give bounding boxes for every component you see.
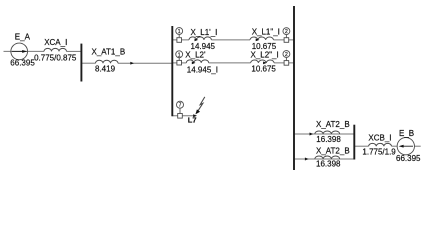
svg-text:2: 2 bbox=[285, 52, 288, 58]
svg-text:14.945_I: 14.945_I bbox=[187, 66, 218, 75]
svg-text:X_L2': X_L2' bbox=[185, 51, 206, 60]
svg-text:1: 1 bbox=[178, 29, 181, 35]
svg-text:1.775/1.9: 1.775/1.9 bbox=[362, 148, 396, 157]
svg-text:E_B: E_B bbox=[399, 129, 414, 138]
svg-text:E_A: E_A bbox=[15, 32, 31, 41]
svg-text:L7: L7 bbox=[188, 115, 197, 124]
svg-text:1: 1 bbox=[178, 52, 181, 58]
svg-text:16.398: 16.398 bbox=[316, 159, 341, 168]
svg-text:X_L1"_I: X_L1"_I bbox=[252, 27, 280, 36]
svg-text:X_L2"_I: X_L2"_I bbox=[251, 51, 279, 60]
svg-text:14.945: 14.945 bbox=[191, 42, 216, 51]
svg-text:X_AT2_B: X_AT2_B bbox=[316, 146, 350, 155]
svg-text:16.398: 16.398 bbox=[316, 135, 341, 144]
svg-text:XCA_I: XCA_I bbox=[44, 38, 67, 47]
svg-text:X_AT2_B: X_AT2_B bbox=[316, 120, 350, 129]
svg-text:X_L1'_I: X_L1'_I bbox=[191, 28, 218, 37]
svg-text:66.395: 66.395 bbox=[10, 59, 35, 68]
svg-text:8.419: 8.419 bbox=[95, 64, 116, 73]
svg-text:66.395: 66.395 bbox=[396, 154, 421, 163]
svg-text:10.675: 10.675 bbox=[252, 42, 277, 51]
svg-text:0.775/0.875: 0.775/0.875 bbox=[34, 53, 77, 62]
svg-text:10.675: 10.675 bbox=[251, 65, 276, 74]
svg-text:XCB_I: XCB_I bbox=[368, 133, 391, 142]
svg-text:7: 7 bbox=[179, 103, 182, 109]
svg-text:2: 2 bbox=[285, 29, 288, 35]
svg-text:X_AT1_B: X_AT1_B bbox=[92, 47, 126, 56]
